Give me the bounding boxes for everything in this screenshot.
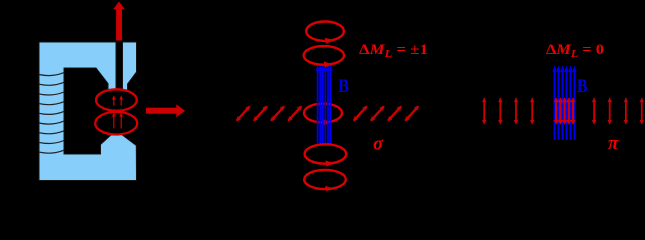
sigma circular-polarization ellipse 1 (top) [304, 22, 347, 190]
middle B-field line bundle with up arrowheads [318, 70, 331, 144]
transverse observation arrow (to the right) [146, 104, 185, 117]
svg-text:π: π [608, 133, 619, 154]
sigma ellipse 3 [305, 144, 347, 163]
sigma ellipse 2 [304, 46, 344, 65]
sigma ellipse around field lines (drawn under the field lines) [304, 104, 342, 123]
left group of sigma transverse double arrows (slashes) [236, 106, 302, 122]
lamp ellipse lower (in magnet gap) [95, 112, 137, 135]
right B-field line bundle with up arrowheads [555, 71, 575, 141]
svg-text:ΔML = ±1: ΔML = ±1 [359, 42, 428, 60]
right group of sigma transverse double arrows (slashes) [353, 106, 419, 122]
small dipole arrows inside lamp ellipses [112, 95, 123, 128]
rotation arrowhead of middle sigma ellipse [323, 119, 332, 125]
longitudinal observation arrow (up through pole hole) [113, 2, 125, 41]
pi linear-polarization vertical double arrows [482, 97, 644, 125]
rotation arrowheads on sigma ellipses [324, 38, 335, 191]
lamp ellipse upper (in magnet gap) [96, 89, 137, 110]
svg-text:σ: σ [373, 134, 384, 154]
svg-text:B: B [577, 76, 588, 97]
upper pole right wedge (right of drilled slot) [123, 42, 137, 90]
coil windings on left arm [39, 73, 64, 154]
svg-text:B: B [338, 76, 349, 97]
pi arrows over field bundle [554, 97, 559, 125]
electromagnet yoke (C-core with window and slot) [39, 42, 137, 181]
sigma ellipse 4 (bottom) [304, 170, 346, 189]
